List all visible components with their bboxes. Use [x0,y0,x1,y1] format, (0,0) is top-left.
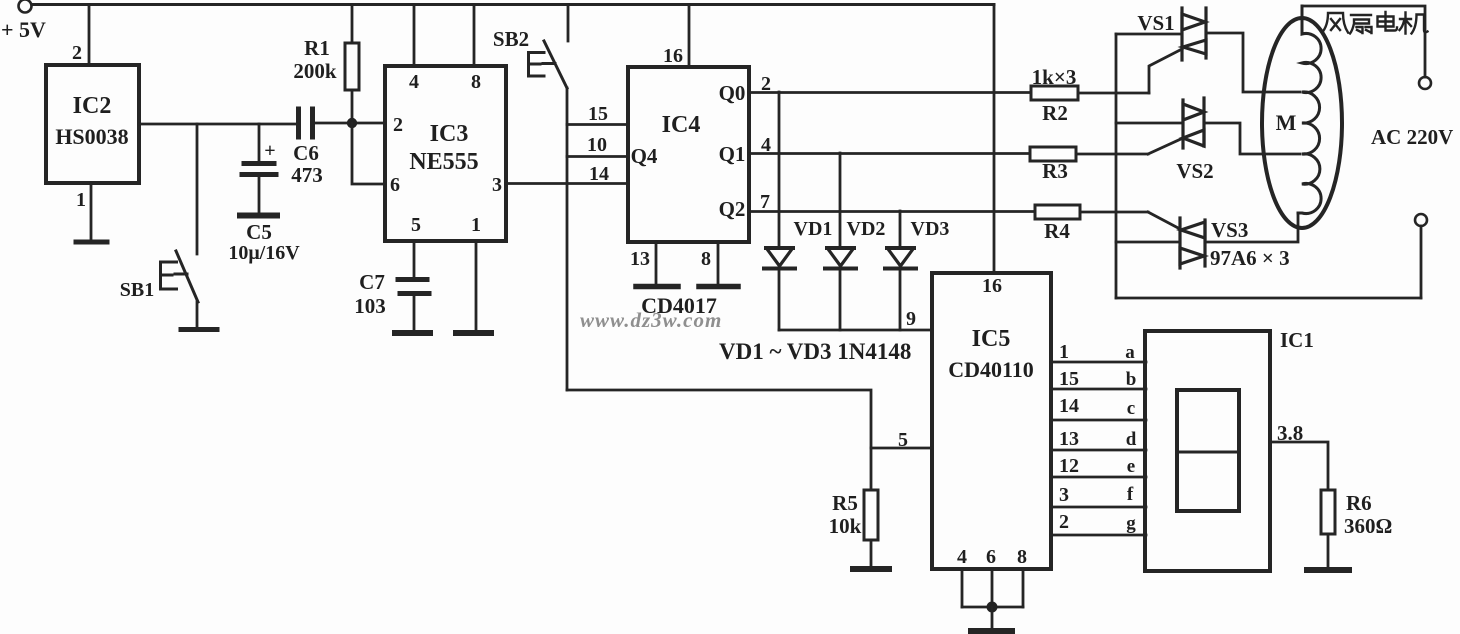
svg-text:IC2: IC2 [73,93,112,119]
resistor R5 10k [870,448,873,490]
svg-text:103: 103 [354,294,386,318]
wire VS1 to motor tap1 [1206,33,1300,92]
capacitor C6 plates [296,109,301,137]
wire diode bus to IC5 pin9 [779,329,932,332]
svg-text:M: M [1276,110,1297,135]
wire IC2 pin1 to ground [90,183,93,240]
svg-text:VD3: VD3 [911,218,950,240]
svg-text:Q4: Q4 [631,144,658,168]
svg-text:1: 1 [1059,341,1069,363]
resistor R1 200k [345,43,359,90]
wire bus to VS2 [1116,122,1183,125]
svg-text:10: 10 [587,134,607,156]
triac VS2 [1183,98,1204,148]
svg-text:10k: 10k [829,514,862,538]
capacitor C7 103 [398,277,427,282]
counter IC4 CD4017 box [628,67,749,242]
svg-text:Q1: Q1 [719,142,746,166]
char dian [1378,12,1398,31]
wire IC5 pin14 to IC1 c [1051,419,1146,422]
svg-text:VS2: VS2 [1176,159,1213,183]
svg-text:97A6 × 3: 97A6 × 3 [1210,246,1290,270]
wire SB1 to ground [196,302,199,327]
wire bus to VS1 [1116,33,1182,36]
ground IC3 pin1 [456,330,491,336]
svg-text:8: 8 [701,248,711,270]
svg-text:5: 5 [411,214,421,236]
motor winding [1298,6,1321,213]
wire SB2 branch to IC5 pin5 [567,390,932,448]
resistor R6 360ohm [1321,490,1335,534]
svg-text:www.dz3w.com: www.dz3w.com [580,308,722,332]
svg-text:13: 13 [1059,428,1079,450]
svg-text:IC1: IC1 [1280,328,1314,352]
wire rail to IC4 pin16 [688,5,691,68]
svg-text:b: b [1126,369,1137,390]
svg-text:a: a [1125,342,1135,363]
svg-text:R2: R2 [1042,101,1068,125]
wire rail to R1 [351,5,354,44]
wire triac bus vertical [1115,34,1118,298]
svg-text:2: 2 [393,114,403,136]
svg-text:1: 1 [471,214,481,236]
svg-text:e: e [1127,456,1135,477]
svg-text:SB2: SB2 [493,27,529,51]
triac VS3 [1180,218,1205,268]
wire pins 4-6-8 bus [962,606,1023,609]
wire top +5V rail [33,3,994,6]
terminal AC bottom [1415,214,1427,226]
svg-text:VS3: VS3 [1211,218,1248,242]
svg-text:3: 3 [492,174,502,196]
svg-text:R6: R6 [1346,491,1372,515]
display segment rectangle [1177,390,1239,511]
svg-text:4: 4 [957,546,967,568]
wire rail to IC3 pin8 [473,5,476,67]
wire IC4 pin8 to ground [717,242,720,284]
ground IC2 [76,240,107,245]
display segment middle bar [1177,451,1239,454]
wire IC4 pin13 to ground [655,242,658,284]
svg-text:R5: R5 [832,491,858,515]
char shan [1350,15,1372,34]
switch SB1 blade [176,251,198,302]
wire VS3 to motor tap3 [1205,213,1298,242]
counter IC5 CD40110 box [932,273,1051,569]
svg-text:C6: C6 [293,141,319,165]
svg-text:VD1 ~ VD3 1N4148: VD1 ~ VD3 1N4148 [719,339,911,364]
diode VD2 [839,153,842,247]
label fan motor (CJK strokes) [1322,12,1428,34]
wire IC5 pin15 to IC1 b [1051,388,1146,391]
svg-text:200k: 200k [293,59,337,83]
svg-text:g: g [1126,513,1136,534]
svg-text:IC5: IC5 [972,326,1011,352]
node pins468 junction dot [987,602,998,613]
wire SB2 riser down [566,88,569,390]
capacitor C5 plates [244,161,274,166]
wire rail to IC5 pin16 [993,5,996,274]
svg-text:13: 13 [630,248,650,270]
ground R5 [853,566,889,572]
wire rail to SB2 [567,5,570,42]
svg-text:5: 5 [898,429,908,451]
wire IC5 pin6 down [991,569,994,607]
wire C5 riser [258,124,261,161]
wire IC3 pin1 to ground [475,241,478,330]
wire bottom AC rail [1116,297,1421,300]
wire IC5 pin13 to IC1 d [1051,449,1146,452]
terminal AC top [1419,77,1431,89]
svg-text:C7: C7 [359,270,385,294]
wire C6 to node A [315,122,385,125]
svg-text:+ 5V: + 5V [1,17,46,42]
char ji [1400,13,1428,34]
svg-text:IC3: IC3 [430,121,469,147]
wire node A to IC3 pin6 [352,123,385,184]
wire bus to VS3 [1116,241,1180,244]
svg-text:8: 8 [471,71,481,93]
wire IC5 pin3 to IC1 f [1051,506,1146,509]
ground C7 [395,330,430,336]
wire R1 to node A [351,90,354,123]
svg-text:9: 9 [906,308,916,330]
svg-text:6: 6 [986,546,996,568]
svg-text:3.8: 3.8 [1277,421,1303,445]
switch SB2 blade [544,41,567,88]
svg-text:Q0: Q0 [719,81,746,105]
wire IC3 pin3 to IC4 pin14 [506,182,628,185]
wire VS2 to motor tap2 [1204,123,1300,154]
wire IC2 output to C6 [139,123,296,126]
wire to IC4 pin15 [567,123,628,126]
wire C5 to ground [258,177,261,212]
svg-text:VD2: VD2 [847,218,886,240]
wire VS2 gate [1148,138,1183,154]
ground C5 [240,213,277,219]
triac VS1 [1182,8,1206,60]
wire R2 to VS1 gate [1078,92,1149,95]
wire IC5 pin8 down [1022,569,1025,607]
svg-text:16: 16 [982,275,1002,297]
wire IC3 pin5 to C7 [413,241,416,277]
display IC1 box [1145,331,1270,571]
diode VD3 [899,211,902,247]
wire R4 to VS3 gate [1080,211,1148,214]
svg-text:IC4: IC4 [662,112,701,138]
wire motor to AC top terminal [1302,6,1425,77]
resistor R2 [1031,86,1078,100]
svg-text:1: 1 [76,189,86,211]
wire C7 to ground [413,296,416,330]
svg-text:6: 6 [390,174,400,196]
wire VS3 gate [1148,212,1180,229]
ground SB1 [181,327,217,332]
svg-text:16: 16 [663,45,683,67]
svg-text:3: 3 [1059,484,1069,506]
op-amp IC2 HS0038 box [46,65,139,183]
switch SB2 actuator [529,53,556,77]
svg-text:4: 4 [409,71,419,93]
wire IC5 pin12 to IC1 e [1051,476,1146,479]
svg-text:+: + [264,140,275,162]
wire rail to IC2 pin2 [88,5,91,66]
svg-text:d: d [1126,429,1137,450]
wire R6 to ground [1327,534,1330,567]
svg-text:10μ/16V: 10μ/16V [228,242,300,264]
wire R3 to VS2 gate [1076,153,1148,156]
svg-text:14: 14 [589,163,609,185]
svg-text:12: 12 [1059,455,1079,477]
svg-text:VD1: VD1 [794,218,833,240]
svg-text:15: 15 [1059,368,1079,390]
svg-text:f: f [1127,484,1134,505]
wire Q2 to R4 [749,210,1035,213]
resistor R4 [1035,205,1080,219]
ground IC4 pin13 [636,284,678,290]
wire Q0 to R2 [749,91,1031,94]
svg-text:1k×3: 1k×3 [1032,65,1077,89]
resistor R3 [1030,147,1076,161]
wire IC5 pin1 to IC1 a [1051,361,1146,364]
wire Q1 to R3 [749,152,1030,155]
svg-text:R1: R1 [304,36,330,60]
svg-text:HS0038: HS0038 [55,124,128,149]
wire junction to ground [991,607,994,629]
svg-text:CD40110: CD40110 [948,357,1034,382]
svg-text:2: 2 [72,42,82,64]
diode VD1 [778,92,781,247]
svg-text:R4: R4 [1044,219,1070,243]
wire rail to IC3 pin4 [413,5,416,67]
svg-text:R3: R3 [1042,159,1068,183]
wire IC5 pin2 to IC1 g [1051,534,1146,537]
switch SB1 actuator [161,262,188,289]
svg-text:NE555: NE555 [409,149,478,175]
svg-text:8: 8 [1017,546,1027,568]
motor M ellipse [1262,18,1342,228]
ground IC4 pin8 [699,284,738,290]
ground R6 [1307,567,1349,573]
svg-text:15: 15 [588,103,608,125]
wire VS1 gate [1149,49,1182,93]
svg-text:c: c [1127,398,1135,419]
svg-text:C5: C5 [246,220,272,244]
svg-text:VS1: VS1 [1137,11,1174,35]
svg-text:7: 7 [760,191,770,213]
timer IC3 NE555 box [385,66,506,241]
char feng [1322,13,1348,33]
wire AC bottom terminal to rail [1420,226,1423,298]
wire R5 to ground [870,540,873,567]
wire IC5 pin4 down [961,569,964,607]
svg-text:14: 14 [1059,395,1079,417]
node A junction dot [347,118,357,128]
svg-text:473: 473 [291,163,323,187]
wire SB1 riser [196,124,199,254]
svg-text:Q2: Q2 [719,197,746,221]
ground IC5 [971,628,1012,634]
wire IC1 to R6 [1270,442,1328,490]
svg-text:2: 2 [1059,511,1069,533]
svg-text:AC 220V: AC 220V [1371,125,1453,149]
wire to IC4 pin10 [567,155,628,158]
svg-text:360Ω: 360Ω [1344,514,1392,538]
svg-text:SB1: SB1 [120,279,154,301]
+5V supply terminal [19,0,32,13]
